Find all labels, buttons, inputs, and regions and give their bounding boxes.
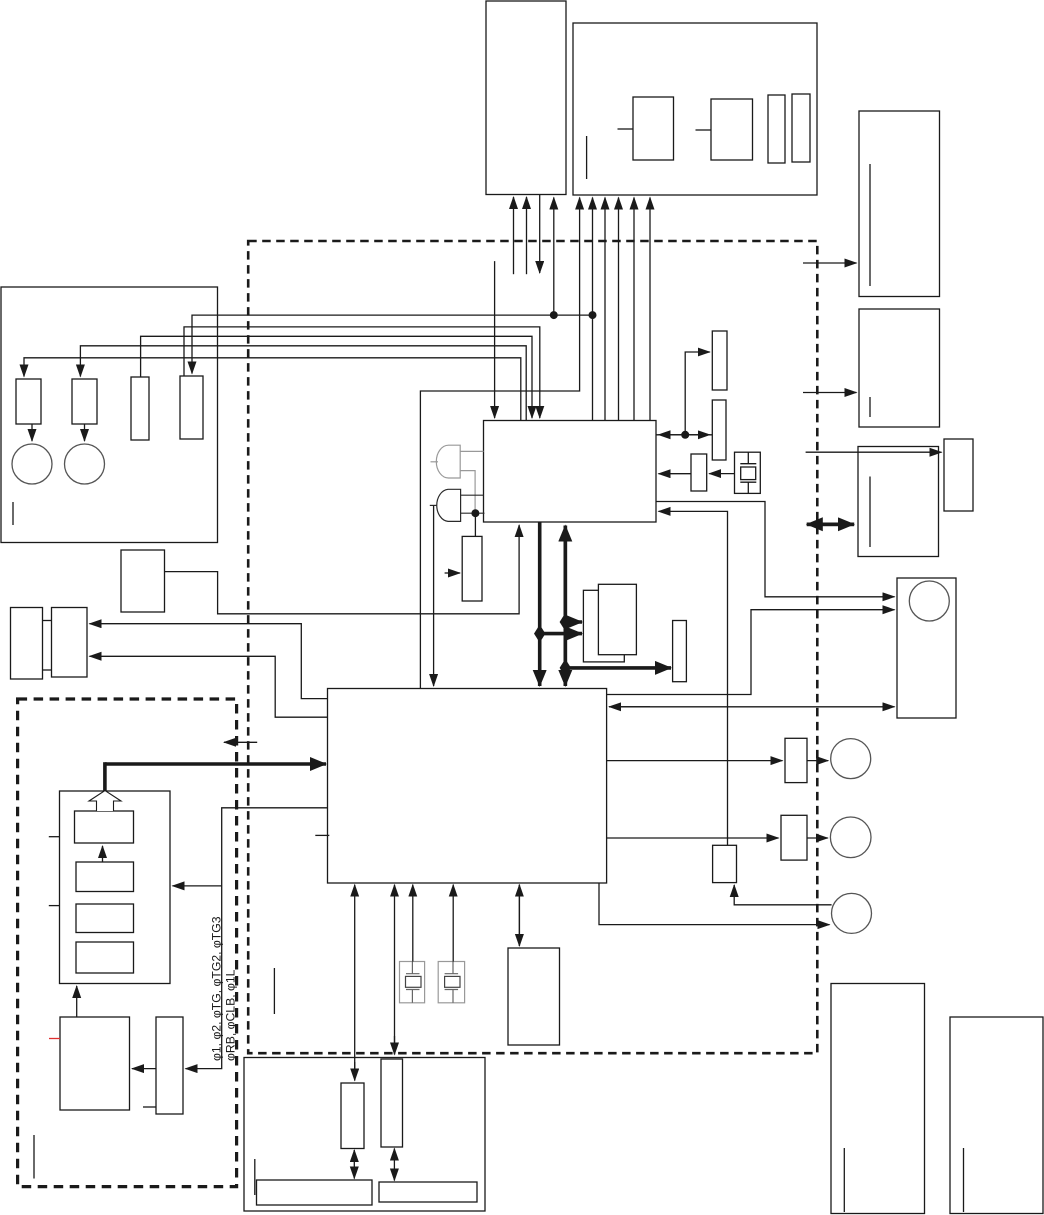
wire DSP to L2 upper — [90, 624, 328, 699]
dashed boundary: signal-processing block — [248, 241, 817, 1053]
bottom-right box BR2 — [950, 1017, 1043, 1214]
block B sub-box 2 stub — [696, 129, 712, 131]
bidir wire DSP-T down part — [518, 885, 520, 946]
stub arrow to TR4 — [806, 451, 942, 453]
arrow CPU rect2 to rect1 — [102, 846, 104, 862]
crystal X1 symbol — [740, 452, 756, 493]
motor circle 2 — [65, 444, 105, 484]
block B inner sub-box 2 — [711, 99, 753, 160]
bus line L4 TG to rect2 — [80, 346, 526, 421]
svg-text:φRB, φCLB, φ1L: φRB, φCLB, φ1L — [224, 969, 238, 1061]
dashed block label leader — [273, 968, 275, 1014]
DSP left edge tick — [315, 834, 329, 836]
block A (top display unit) — [486, 1, 566, 195]
wire S1 to TG bottom — [165, 525, 520, 614]
stub arrow to TR2 — [803, 392, 857, 394]
BR1 label leader — [843, 1148, 845, 1212]
arrow into op box top — [394, 1036, 396, 1055]
block B narrow card 1 — [768, 95, 785, 163]
thick branch to memory rect upper — [565, 620, 582, 624]
left box: lens/iris unit — [1, 287, 218, 543]
wire stub down into TG — [494, 261, 496, 418]
thick bus TG to DSP 1 — [538, 522, 542, 686]
TG output to block B line 5 — [633, 198, 635, 421]
double arrow op rectA-C down — [353, 1163, 355, 1179]
right box TR1 (monitor) — [859, 111, 940, 297]
driver block label leader — [33, 1135, 35, 1179]
G1 lower output wire to node — [460, 471, 475, 512]
crystal XB inner plate — [445, 976, 460, 987]
arrow rect2 to motor2 — [84, 424, 86, 441]
wire jack3 to R3 — [734, 885, 831, 905]
thick bidir arrow to TR3 left part — [807, 522, 854, 526]
node on TG-nb2 wire — [681, 431, 689, 439]
wire DSP to op rect A — [354, 885, 356, 1081]
arrow rect1 to motor1 — [31, 424, 33, 441]
output jack circle 1 — [831, 739, 871, 779]
arrow R2 to jack2 — [807, 837, 828, 839]
arrow DSP to R1 — [607, 760, 783, 762]
G1 input stub — [431, 461, 439, 463]
crystal XA inner plate — [406, 976, 422, 987]
arrow branch to CPU container — [173, 885, 222, 887]
and-gate G2 body — [437, 489, 461, 521]
CPU inner rect 2 — [76, 862, 134, 892]
operation label leader — [254, 1159, 256, 1195]
wire DSP to jack3 — [599, 883, 830, 925]
output driver R1 — [785, 738, 807, 782]
memory box T — [508, 948, 560, 1045]
sync separator rect SR — [462, 536, 482, 601]
double arrow op rectB-D down — [393, 1162, 395, 1181]
G2 output wire upper to TG — [461, 494, 484, 496]
motor circle 1 — [12, 444, 52, 484]
operation inner rect B — [381, 1059, 403, 1147]
wire R3 up to TG — [659, 511, 728, 845]
driver rect 2 — [72, 379, 97, 424]
timing generator TG — [484, 421, 657, 523]
wire TG bottom to interface box — [656, 502, 895, 597]
small box S1 — [121, 550, 165, 612]
narrow register rect NR — [673, 621, 687, 682]
interface connector circle — [909, 581, 949, 621]
bidir wire DSP to interface box — [609, 706, 650, 708]
left pair box L1 — [11, 608, 43, 680]
thick bus 2 down part — [563, 526, 567, 687]
output jack circle 2 — [830, 817, 871, 858]
interface circle-box — [897, 578, 956, 718]
crystal XB symbol — [445, 962, 459, 1003]
CPU container box — [60, 791, 171, 984]
CPU inner rect 3 — [76, 904, 134, 933]
block B sub-box 1 stub — [618, 128, 634, 130]
node bus-A junction — [550, 311, 558, 319]
bottom operation box — [244, 1058, 485, 1212]
output driver R2 — [781, 815, 807, 860]
thick line controller riser — [103, 762, 107, 791]
CPU container tick lower — [49, 905, 60, 907]
arrow input to SR box — [445, 572, 460, 574]
CPU inner rect 4 — [76, 942, 134, 973]
G2 input stub — [430, 504, 437, 506]
driver rect 1 — [16, 379, 41, 424]
CPU inner rect 1 — [75, 811, 134, 843]
junction diamond thick bus2 lower — [560, 659, 571, 677]
G1 output wire to TG — [460, 450, 483, 452]
bus line L5 TG to rect1 — [24, 358, 521, 421]
svg-text:φ1, φ2, φTG, φTG2, φTG3: φ1, φ2, φTG, φTG2, φTG3 — [210, 916, 224, 1061]
arrow R1 to jack1 — [807, 760, 828, 762]
left box label leader — [12, 502, 14, 525]
thick bus TG to DSP 2 — [563, 526, 567, 686]
crystal X1 inner plate — [741, 467, 756, 480]
double arrow TG to nb2 right part — [656, 434, 710, 436]
narrow box nb2 — [712, 400, 726, 460]
thick bidir arrow to TR3 — [807, 522, 854, 526]
thick branch to memory rect lower — [540, 632, 582, 636]
bus line L1 (y315) rect4 to node — [192, 315, 593, 373]
arrow P2 to P1 — [132, 1068, 156, 1070]
wire node to SR box — [474, 513, 476, 536]
wire G2 input down to DSP — [433, 505, 435, 686]
wire to block A 1 (stub) — [513, 197, 515, 274]
right box TR4 (memory card) — [944, 439, 973, 511]
block B inner sub-box 1 — [633, 97, 674, 160]
wire DSP to controller vertical — [186, 808, 328, 1069]
crystal X1 outer — [735, 452, 761, 493]
crystal XA symbol — [406, 962, 420, 1003]
TR1 label leader — [869, 164, 871, 286]
bus line L2 rect4 to TG — [184, 327, 540, 418]
P2 bottom tick — [143, 1106, 156, 1108]
operation wide rect D — [379, 1182, 477, 1202]
dashed boundary: driver block (bottom-left) — [18, 699, 237, 1187]
block B narrow card 2 — [792, 94, 810, 162]
double arrow TG to nb2 — [659, 434, 713, 436]
thick arrow controller to DSP — [105, 762, 326, 766]
right box TR2 — [859, 309, 940, 427]
double arrow op rectB to rectD — [393, 1149, 395, 1163]
oscillator box XR — [691, 454, 707, 491]
arrow into op rect A — [354, 1062, 356, 1081]
wire DSP to crystal XB — [452, 885, 454, 962]
and-gate G1 (gray) body — [436, 445, 460, 478]
bidir wire DSP-interface right part — [609, 706, 895, 708]
memory back rect — [583, 590, 624, 662]
crystal XB outer (gray) — [438, 962, 464, 1003]
TG output to block B line 2 with node — [592, 198, 594, 421]
BR2 label leader — [963, 1148, 965, 1212]
bidir wire DSP to memory T — [518, 885, 520, 946]
P1 red stub — [49, 1038, 60, 1040]
TG output to block B line 3 — [604, 198, 606, 421]
stub arrow to TR1 — [803, 262, 857, 264]
left pair box L2 — [52, 608, 88, 678]
operation wide rect C — [257, 1180, 373, 1205]
TG output to block B line 4 — [618, 198, 620, 421]
arrow P1 to CPU container — [76, 986, 78, 1017]
wire DSP to L2 lower — [90, 656, 328, 717]
TR2 label leader — [869, 397, 871, 417]
thick branch to register NR — [565, 666, 671, 670]
arrow DSP to R2 — [607, 837, 779, 839]
RAM box P2 — [156, 1017, 183, 1114]
junction diamond thick bus2 upper — [560, 613, 571, 631]
TR3 label leader — [869, 477, 871, 548]
wire to block A 2 (stub) — [526, 197, 528, 274]
crystal XA outer (gray) — [400, 962, 425, 1003]
junction diamond thick bus1 — [534, 625, 545, 643]
operation inner rect A — [341, 1083, 364, 1149]
driver rect 4 — [180, 376, 203, 439]
narrow box nb1 — [712, 331, 727, 390]
block arrow rect1 to container top — [89, 791, 121, 812]
arrow XR to TG — [659, 473, 692, 475]
TG output to block B line 6 — [649, 198, 651, 421]
memory front rect — [598, 584, 636, 654]
input jack circle 3 — [832, 893, 872, 933]
CPU container tick upper — [49, 836, 60, 838]
wire DSP corner to interface box — [607, 610, 895, 695]
block B label leader — [586, 136, 588, 179]
G2 output wire lower to TG — [461, 512, 485, 514]
wire DSP up-over to block B (via y391) — [420, 198, 579, 689]
arrow crystal X1 to XR — [709, 473, 734, 475]
ROM box P1 — [60, 1017, 130, 1110]
L1-L2 link upper — [43, 620, 52, 622]
double arrow op rectA to rectC — [353, 1150, 355, 1163]
thin arrow into driver block — [224, 741, 257, 743]
right box TR3 — [858, 447, 939, 557]
wire DSP to op box — [394, 885, 396, 1055]
bottom-right box BR1 — [831, 984, 925, 1214]
block B (top recording unit) — [573, 23, 817, 195]
wire from block A down-arrow stub — [539, 195, 541, 274]
wire block A to bus node — [553, 198, 555, 316]
input amp R3 — [713, 845, 737, 882]
wire DSP to crystal XA — [412, 885, 414, 962]
node at G2 output — [471, 509, 479, 517]
node on TG-B line2 — [589, 311, 597, 319]
main DSP box — [328, 689, 607, 884]
bus line L3 rect3 to TG — [141, 336, 532, 418]
wire node up to nb1 — [685, 352, 710, 435]
L1-L2 link lower — [43, 669, 52, 671]
driver rect 3 — [131, 377, 149, 440]
